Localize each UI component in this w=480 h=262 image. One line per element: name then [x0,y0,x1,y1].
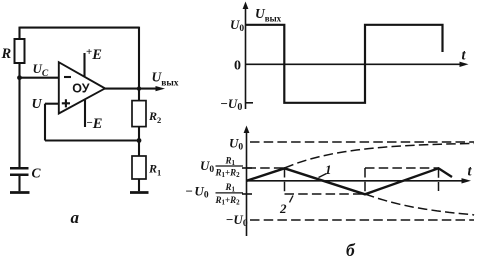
wire R2 to junction [138,127,140,156]
svg-text:1: 1 [325,162,332,177]
axis t horizontal [246,63,461,65]
svg-text:t: t [462,48,467,64]
power -E pin [84,100,86,127]
resistor R [15,39,25,63]
svg-text:R1: R1 [148,162,161,178]
svg-text:R1+R2: R1+R2 [215,167,241,179]
svg-text:б: б [346,240,356,260]
capacitor voltage wave [247,168,453,194]
svg-text:U0: U0 [200,158,214,175]
dashed upper threshold segment 2 [365,167,439,169]
label 2 leader [290,196,294,203]
svg-text:R1: R1 [225,155,236,167]
svg-text:R1: R1 [225,182,236,194]
node UC junction dot [17,75,22,80]
label -U0 R1/(R1+R2) [186,182,244,206]
wire inverting input [20,77,59,79]
wire feedback from + input down [44,104,46,141]
power +E pin [83,53,85,77]
label 1 leader [319,174,327,178]
dashed vertical at trough [364,168,366,194]
svg-text:U0: U0 [230,17,244,34]
node output dot [137,86,141,90]
dashed exponential toward -U0 [365,194,474,215]
tick -U0 [246,102,254,104]
svg-text:ОУ: ОУ [72,82,89,96]
node divider junction dot [137,138,142,143]
axis Uout vertical [245,7,247,109]
dashed exponential toward U0 [285,143,475,168]
resistor R1 [132,156,146,179]
wire output rail vertical [138,27,140,101]
wire R1 to ground [138,179,140,191]
square wave [246,25,443,103]
svg-text:0: 0 [234,59,241,74]
dashed -U0 level line [250,219,474,221]
svg-text:Uвых: Uвых [152,70,179,89]
op-amp plus input sign [62,99,70,107]
svg-text:U0: U0 [229,136,243,153]
wire capacitor to ground [18,175,20,191]
svg-text:Uвых: Uвых [255,6,282,24]
dashed U0 level line [250,141,474,143]
wire top feedback horizontal [20,27,140,29]
dashed upper threshold segment 1 [247,167,285,169]
svg-text:C: C [32,166,42,181]
wire feedback horizontal to divider [45,139,139,141]
svg-text:R: R [1,46,12,62]
dashed vertical at first peak [284,168,286,194]
dashed vertical at second peak [438,168,440,191]
tick lower threshold [242,193,252,195]
ground right [130,191,149,194]
tick upper threshold [242,167,252,169]
svg-text:−E: −E [87,116,103,132]
svg-text:−U0: −U0 [186,184,209,201]
svg-text:R1+R2: R1+R2 [215,195,241,207]
ground left [10,191,30,194]
resistor R2 [132,101,146,127]
svg-text:2: 2 [279,201,287,216]
capacitor C [10,167,29,170]
axis UC vertical [246,131,248,236]
label U0 R1/(R1+R2) [200,155,243,179]
svg-text:а: а [71,208,80,227]
svg-text:+E: +E [86,46,102,63]
axis t horizontal bottom [247,180,463,182]
wire output with arrow [139,88,157,90]
wire left rail (R to capacitor) [18,63,20,167]
op-amp minus input sign [64,76,71,78]
svg-text:t: t [468,164,473,180]
dashed lower threshold segment [285,193,366,195]
svg-text:−U0: −U0 [226,212,248,229]
wire op-amp output [104,88,139,90]
svg-text:−U0: −U0 [221,96,243,113]
wire left rail top (corner to R) [18,27,20,39]
svg-text:UC: UC [33,61,49,79]
svg-text:U: U [32,97,43,112]
wire noninverting input [45,103,59,105]
svg-text:R2: R2 [148,109,161,125]
op-amp U1 triangle [59,62,105,113]
